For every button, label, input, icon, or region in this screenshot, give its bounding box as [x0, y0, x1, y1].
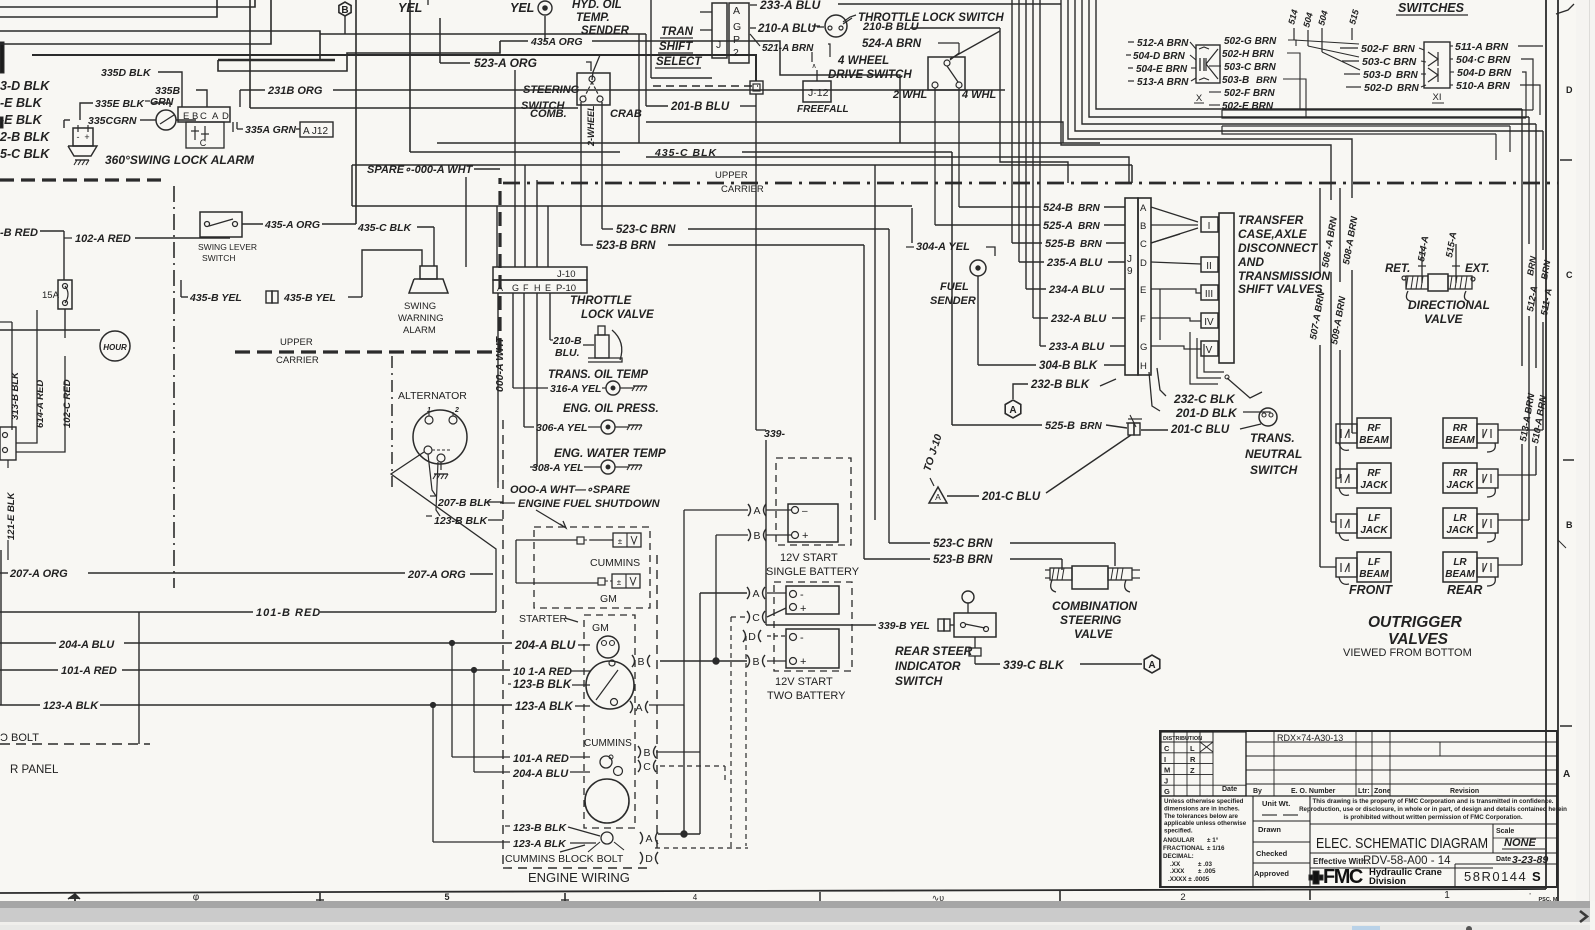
label transfer case axle disconnect [1237, 213, 1330, 296]
wire 523-B BRN lower [864, 554, 1062, 570]
svg-text:4 WHL: 4 WHL [961, 89, 997, 101]
wire 102-C RED rotated [62, 356, 73, 440]
svg-text:BRN: BRN [1078, 203, 1100, 214]
svg-text:JACK: JACK [1446, 525, 1474, 536]
svg-text:E: E [545, 283, 551, 293]
svg-text:J·12: J·12 [808, 87, 829, 99]
svg-text:ALTERNATOR: ALTERNATOR [398, 390, 467, 402]
svg-text:C: C [643, 761, 651, 773]
wire band y143 [437, 142, 1100, 144]
wire 525-B BRN lower [952, 420, 1127, 432]
svg-text:D: D [1140, 258, 1147, 269]
svg-text:SINGLE BATTERY: SINGLE BATTERY [766, 566, 860, 578]
svg-text:OOO-A WHT—∘SPARE: OOO-A WHT—∘SPARE [510, 484, 631, 496]
svg-text:524-A BRN: 524-A BRN [862, 38, 922, 50]
effective with row [1310, 853, 1557, 867]
svg-text:ANGULAR: ANGULAR [1163, 837, 1195, 844]
wire band y157 [646, 157, 1129, 183]
svg-text:207-B BLK: 207-B BLK [437, 497, 493, 509]
svg-text:339-C BLK: 339-C BLK [1003, 658, 1065, 672]
svg-text:513-A BRN: 513-A BRN [1137, 77, 1189, 88]
starter group [519, 613, 635, 852]
svg-text:207-A ORG: 207-A ORG [9, 568, 68, 580]
svg-text:BRN: BRN [1256, 75, 1278, 86]
wires valve return bracket [1190, 332, 1262, 398]
svg-text:DECIMAL:: DECIMAL: [1163, 853, 1194, 860]
wire 435-C BLK left [357, 222, 434, 266]
svg-text:000-A WHT: 000-A WHT [494, 335, 506, 392]
svg-text:TRANS.: TRANS. [1250, 431, 1295, 445]
svg-text:Checked: Checked [1256, 849, 1288, 858]
wires J9 A B C to valve I [1151, 207, 1198, 243]
boundary upper carrier mid [235, 178, 500, 366]
svg-text:IV: IV [1204, 317, 1214, 328]
svg-text:435-B YEL: 435-B YEL [189, 292, 242, 304]
svg-text:SWITCH: SWITCH [1250, 463, 1298, 477]
wire 123-B BLK alt [426, 515, 503, 527]
svg-text:SPARE∘-000-A WHT: SPARE∘-000-A WHT [367, 164, 474, 176]
valve block transfer case [1201, 213, 1234, 363]
svg-text:.XXXX ± .0005: .XXXX ± .0005 [1168, 876, 1210, 883]
svg-text:E: E [183, 111, 189, 122]
svg-text:435-A ORG: 435-A ORG [264, 219, 320, 231]
svg-text:C: C [200, 111, 207, 122]
wire 523-B BRN upper [581, 240, 864, 559]
svg-text:232-A BLU: 232-A BLU [1050, 313, 1107, 325]
svg-text:123-B BLK: 123-B BLK [434, 515, 489, 527]
wire top-left run 1 [0, 0, 255, 7]
svg-text:504-D BRN: 504-D BRN [1457, 67, 1512, 79]
label 360 swing lock alarm [105, 153, 255, 167]
svg-text:512-A BRN: 512-A BRN [1137, 38, 1189, 49]
svg-text:A: A [1009, 405, 1016, 416]
svg-text:THROTTLE: THROTTLE [570, 295, 632, 307]
svg-text:CUMMINS: CUMMINS [584, 738, 632, 749]
svg-text:A: A [935, 492, 941, 502]
svg-text:LF: LF [1368, 557, 1381, 568]
battery two 12V [767, 629, 846, 702]
alarm swing warning horn [398, 266, 448, 336]
connector J-12 freefall [797, 63, 849, 115]
bottom margin fold marks [68, 890, 1558, 903]
svg-text:SWITCH: SWITCH [202, 253, 236, 263]
svg-text:504·C BRN: 504·C BRN [1456, 54, 1511, 66]
wire 506-A BRN feeder [1320, 215, 1340, 522]
valve RF JACK [1336, 463, 1391, 495]
label outrigger valves [1343, 614, 1472, 659]
svg-text:Division: Division [1369, 876, 1406, 887]
svg-text:335E BLK: 335E BLK [95, 98, 145, 110]
svg-text:REAR: REAR [1447, 583, 1482, 597]
svg-text:.XXX: .XXX [1170, 868, 1185, 875]
svg-text:VALVES: VALVES [1388, 631, 1449, 648]
svg-text:15A: 15A [42, 290, 60, 301]
svg-text:-B RED: -B RED [0, 227, 38, 239]
sender eng oil press [524, 403, 659, 434]
svg-text:I: I [1164, 755, 1166, 764]
svg-text:4: 4 [693, 893, 698, 902]
starter pin marks [630, 655, 658, 865]
wire lower-left verticals [0, 550, 150, 744]
wire 524-B BRN to J9-A [959, 202, 1125, 214]
wire band y152 435-C BLK [410, 147, 952, 425]
wire freefall BRN stub [811, 52, 813, 62]
svg-text:COMB.: COMB. [530, 108, 567, 120]
svg-text:H: H [534, 283, 541, 293]
wire 101-A RED long [0, 665, 590, 678]
svg-text:C: C [200, 138, 207, 148]
svg-text:335A GRN: 335A GRN [245, 124, 296, 136]
wire B RED [0, 227, 64, 280]
label switches heading [1396, 1, 1468, 15]
wire 523-C BRN upper [602, 224, 889, 543]
svg-text:RET.: RET. [1385, 263, 1410, 275]
svg-text:G: G [733, 21, 741, 33]
svg-text:123-A BLK: 123-A BLK [515, 701, 573, 713]
svg-text:SELECT: SELECT [656, 56, 702, 68]
wire 335C GRN [64, 115, 156, 128]
svg-text:CUMMINS: CUMMINS [590, 557, 640, 569]
wire 123-B BLK mid [508, 679, 590, 691]
valve combination steering [1045, 566, 1140, 641]
svg-text:Revision: Revision [1450, 788, 1479, 795]
svg-text:Approved: Approved [1254, 869, 1289, 878]
svg-text:applicable unless otherwise: applicable unless otherwise [1164, 820, 1247, 827]
wire junction verticals engine [430, 640, 476, 842]
svg-text:123-A BLK: 123-A BLK [513, 838, 567, 850]
svg-text:VALVE: VALVE [1074, 627, 1113, 641]
wire unnamed vertical x875 [874, 165, 876, 520]
svg-text:C: C [1566, 270, 1573, 280]
wires battery inline pins upper [684, 504, 766, 705]
diode pack X [1194, 45, 1220, 104]
wire band y206 [352, 205, 912, 207]
svg-text:201-D BLK: 201-D BLK [1175, 406, 1238, 420]
wire 207-B BLK [430, 496, 503, 509]
svg-text:503-C BRN: 503-C BRN [1224, 62, 1276, 73]
wire 525-A BRN to J9-B [935, 220, 1125, 232]
svg-text:210-B BLU: 210-B BLU [862, 21, 920, 33]
node B hexagon [339, 2, 351, 34]
svg-text:210-A BLU: 210-A BLU [757, 23, 816, 35]
svg-text:2-WHEEL: 2-WHEEL [586, 106, 596, 148]
approval column [1253, 796, 1310, 887]
wires out of J-10 bottom [513, 293, 550, 467]
switch trans neutral [1245, 408, 1302, 477]
wire 210-B BLU long run [910, 28, 1068, 183]
svg-text:4 WHEEL: 4 WHEEL [837, 55, 889, 67]
svg-text:G: G [512, 283, 519, 293]
svg-text:JACK: JACK [1446, 480, 1474, 491]
svg-text:9: 9 [1127, 266, 1133, 277]
wire 335A GRN to AJ12 [237, 122, 333, 137]
svg-text:A: A [1563, 769, 1570, 780]
connector EBCAD [178, 107, 233, 148]
wire 204-A BLU long [0, 638, 590, 652]
svg-text:204-A BLU: 204-A BLU [512, 768, 569, 780]
svg-text:BEAM: BEAM [1445, 435, 1475, 446]
svg-text:R PANEL: R PANEL [10, 764, 59, 776]
battery two 12V outer box [767, 582, 852, 671]
svg-text:UPPER: UPPER [280, 337, 313, 348]
scrollbar area bottom [0, 901, 1595, 930]
svg-text:335D BLK: 335D BLK [101, 67, 152, 79]
distribution table [1161, 732, 1246, 796]
svg-text:10 1-A RED: 10 1-A RED [513, 666, 572, 678]
wires into J-10 top [466, 70, 548, 267]
wire J9-D to valve II [1151, 262, 1201, 264]
svg-text:OUTRIGGER: OUTRIGGER [1368, 614, 1463, 631]
wire J9-G to valve V [1151, 346, 1201, 349]
svg-text:CARRIER: CARRIER [721, 184, 764, 195]
svg-text:SENDER: SENDER [581, 25, 630, 37]
svg-text:523-C BRN: 523-C BRN [616, 224, 676, 236]
svg-text:12V START: 12V START [775, 676, 833, 688]
svg-text:123-B BLK: 123-B BLK [513, 679, 572, 691]
svg-text:B: B [1566, 520, 1573, 530]
svg-text:∧: ∧ [811, 63, 816, 70]
svg-text:C: C [1140, 239, 1147, 250]
svg-text:SHIFT VALVES: SHIFT VALVES [1238, 282, 1322, 296]
svg-text:231B ORG: 231B ORG [267, 85, 323, 97]
svg-text:is prohibited without written: is prohibited without written permission… [1343, 814, 1522, 821]
wire 231B ORG [240, 85, 1005, 107]
wire 525-B BRN to J9-C [1012, 238, 1125, 250]
svg-text:1: 1 [427, 407, 431, 414]
connector J9 [1125, 198, 1151, 427]
svg-text:502-F: 502-F [1361, 43, 1389, 55]
svg-text:STEERING: STEERING [523, 84, 580, 96]
svg-text:525-B: 525-B [1045, 420, 1075, 432]
svg-text:Scale: Scale [1496, 828, 1514, 835]
zone letters right margin [1556, 4, 1574, 780]
svg-text:F: F [523, 283, 529, 293]
wire 335B GRN [145, 85, 207, 108]
svg-text:502-D: 502-D [1364, 82, 1393, 94]
svg-text:ENG. WATER TEMP: ENG. WATER TEMP [554, 446, 667, 460]
svg-text:5-C BLK: 5-C BLK [0, 147, 50, 161]
svg-text:A: A [1140, 203, 1147, 214]
svg-text:dimensions are in inches.: dimensions are in inches. [1164, 805, 1240, 812]
svg-text:1: 1 [1444, 890, 1450, 901]
svg-text:STARTER: STARTER [519, 613, 567, 625]
svg-text:A: A [497, 283, 503, 293]
svg-text:2-B BLK: 2-B BLK [0, 130, 50, 144]
wire J9-E to valve III [1151, 289, 1201, 340]
svg-text:201-B BLU: 201-B BLU [670, 101, 730, 113]
label YEL top left [398, 0, 428, 15]
svg-text:RR: RR [1453, 423, 1468, 434]
svg-text:J: J [716, 39, 721, 51]
svg-text:±: ± [617, 578, 622, 587]
svg-text:504-E BRN: 504-E BRN [1136, 64, 1188, 75]
svg-text:D: D [748, 631, 756, 643]
svg-text:Drawn: Drawn [1258, 825, 1281, 834]
svg-text:S: S [1532, 869, 1541, 884]
svg-text:-: - [800, 589, 804, 601]
svg-text:A: A [645, 833, 652, 845]
wire 339-C BLK [969, 637, 1142, 672]
label REAR [1447, 583, 1482, 597]
svg-text:CASE,AXLE: CASE,AXLE [1238, 227, 1308, 241]
svg-text:503-D: 503-D [1363, 69, 1392, 81]
svg-text:YEL: YEL [398, 1, 422, 15]
svg-text:BRN: BRN [1078, 221, 1100, 232]
wire 234-A BLU to J9-E [1026, 284, 1125, 296]
svg-text:D: D [645, 853, 653, 865]
svg-text:DRIVE SWITCH: DRIVE SWITCH [828, 69, 912, 81]
svg-text:2: 2 [733, 47, 739, 59]
svg-text:232-C BLK: 232-C BLK [1173, 392, 1236, 406]
wire 523-A ORG [440, 18, 600, 80]
svg-text:A: A [212, 111, 219, 122]
wire 123-B BLK lower [505, 822, 600, 836]
svg-text:SWITCHES: SWITCHES [1398, 1, 1465, 15]
title ELEC SCHEMATIC DIAGRAM [1316, 824, 1493, 853]
svg-text:523-B BRN: 523-B BRN [933, 554, 993, 566]
svg-text:335CGRN: 335CGRN [88, 115, 137, 127]
svg-text:-: - [77, 132, 80, 142]
svg-text:JACK: JACK [1360, 525, 1388, 536]
wire 123-A BLK lower [433, 838, 596, 850]
svg-text:FREEFALL: FREEFALL [797, 104, 849, 115]
battery pin marks [743, 587, 765, 668]
svg-text:EXT.: EXT. [1465, 263, 1490, 275]
battery single 12V [766, 458, 860, 578]
sender eng water temp [530, 446, 667, 474]
svg-text:CRAB: CRAB [610, 108, 642, 120]
switch steering [521, 73, 642, 147]
svg-text:AND: AND [1237, 255, 1264, 269]
svg-text:435-C BLK: 435-C BLK [357, 222, 413, 234]
wires cluster mid 502F 503C 503D 502D [1340, 43, 1426, 94]
wire 121-E BLK rotated [6, 460, 17, 560]
svg-text:B: B [752, 656, 759, 668]
svg-text:II: II [1206, 261, 1212, 272]
svg-text:Date: Date [1496, 856, 1511, 863]
wire 435A ORG upper [500, 36, 900, 143]
svg-text:204-A BLU: 204-A BLU [58, 639, 115, 651]
svg-text:GM: GM [600, 593, 617, 605]
svg-text:210-B: 210-B [552, 335, 582, 347]
svg-text:304-B BLK: 304-B BLK [1039, 360, 1098, 372]
tolerance block [1161, 796, 1253, 887]
wire 101-A RED lower [452, 753, 590, 765]
svg-text:A: A [1148, 660, 1155, 671]
svg-text:FUEL: FUEL [940, 281, 969, 293]
svg-text:CARRIER: CARRIER [276, 355, 319, 366]
svg-text:D: D [1566, 85, 1573, 95]
wire 523-C BRN lower [889, 538, 1115, 566]
svg-text:VIEWED FROM BOTTOM: VIEWED FROM BOTTOM [1343, 647, 1472, 659]
svg-text:III: III [1205, 289, 1213, 300]
svg-text:+: + [84, 132, 89, 142]
svg-text:Effective With:: Effective With: [1313, 857, 1369, 866]
svg-text:A: A [752, 588, 759, 600]
svg-text:DISTRIBUTION: DISTRIBUTION [1163, 736, 1202, 742]
svg-text:233-A BLU: 233-A BLU [759, 0, 821, 12]
svg-text:BRN: BRN [1393, 44, 1415, 55]
wire 335D BLK [101, 67, 182, 107]
wire 233-A BLU to J9-G [1040, 341, 1125, 353]
valve LF BEAM [1336, 552, 1391, 584]
svg-text:B: B [192, 111, 198, 122]
svg-text:Zone: Zone [1374, 788, 1391, 795]
svg-text:BEAM: BEAM [1445, 569, 1475, 580]
wires cluster 512 504 labels [1126, 38, 1196, 88]
svg-text:2 WHL: 2 WHL [892, 89, 928, 101]
wire band y123 [646, 122, 1063, 143]
wire band y165 [352, 165, 1132, 206]
FMC logo row [1309, 864, 1541, 888]
svg-text:GM: GM [592, 622, 609, 634]
valve directional [1385, 231, 1490, 326]
node A hexagon upper [1005, 400, 1021, 418]
svg-text:123-A BLK: 123-A BLK [43, 700, 99, 712]
svg-text:TWO BATTERY: TWO BATTERY [767, 690, 846, 702]
svg-text:NEUTRAL: NEUTRAL [1245, 447, 1302, 461]
alternator [398, 390, 467, 479]
wire 101-B RED [0, 607, 496, 619]
svg-text:+: + [802, 530, 808, 542]
valve LR JACK [1443, 508, 1498, 542]
wire comb 523-B feeder [580, 102, 582, 245]
svg-text:M: M [1164, 766, 1170, 775]
svg-text:232-B BLK: 232-B BLK [1030, 379, 1090, 391]
svg-text:JACK: JACK [1360, 480, 1388, 491]
svg-text:HYD. OIL: HYD. OIL [572, 0, 622, 11]
svg-text:435-B YEL: 435-B YEL [283, 292, 336, 304]
wire 510-A BRN feeder right [1498, 124, 1550, 475]
svg-text:Ltr:: Ltr: [1358, 788, 1370, 795]
svg-text:± 1/16: ± 1/16 [1207, 845, 1225, 852]
svg-text:XI: XI [1433, 92, 1442, 103]
svg-text:SWITCH: SWITCH [895, 674, 943, 688]
svg-text:101-A RED: 101-A RED [513, 753, 569, 765]
wire bundle center verticals [1012, 0, 1040, 346]
svg-text:511-A BRN: 511-A BRN [1455, 41, 1509, 53]
engine wiring dashed box [503, 420, 657, 885]
label FRONT [1349, 583, 1393, 597]
wire top-left run 2 [0, 0, 217, 17]
svg-text:BEAM: BEAM [1359, 569, 1389, 580]
svg-text:SWING LEVER: SWING LEVER [198, 242, 257, 252]
wire 335E BLK [80, 98, 170, 120]
svg-text:102-A RED: 102-A RED [75, 233, 131, 245]
svg-text:58R0144: 58R0144 [1464, 869, 1527, 884]
wire 521-A BR top [750, 34, 830, 57]
wire 232-A BLU to J9-F [1033, 313, 1125, 325]
sender fuel [906, 208, 995, 365]
svg-text:INDICATOR: INDICATOR [895, 659, 961, 673]
switch rear steer indicator [895, 591, 996, 688]
switch 4 wheel drive [828, 55, 997, 225]
svg-text:FRONT: FRONT [1349, 583, 1393, 597]
svg-text:L: L [1190, 744, 1195, 753]
svg-text:304-A YEL: 304-A YEL [916, 241, 970, 253]
sheet right border [1546, 0, 1558, 903]
gauge circle swing lock [156, 110, 196, 130]
wire 204-A BLU lower [474, 768, 590, 780]
svg-text:121-E BLK: 121-E BLK [6, 491, 17, 540]
wire 513-A BRN feeder right [1498, 109, 1538, 565]
svg-text:DISCONNECT: DISCONNECT [1238, 241, 1319, 255]
svg-text:LR: LR [1453, 513, 1467, 524]
boundary dash vertical alternator [391, 356, 393, 487]
wire J9-F to valve IV [1151, 318, 1201, 321]
svg-text:REAR STEER: REAR STEER [895, 644, 973, 658]
svg-text:TRAN: TRAN [661, 26, 694, 38]
